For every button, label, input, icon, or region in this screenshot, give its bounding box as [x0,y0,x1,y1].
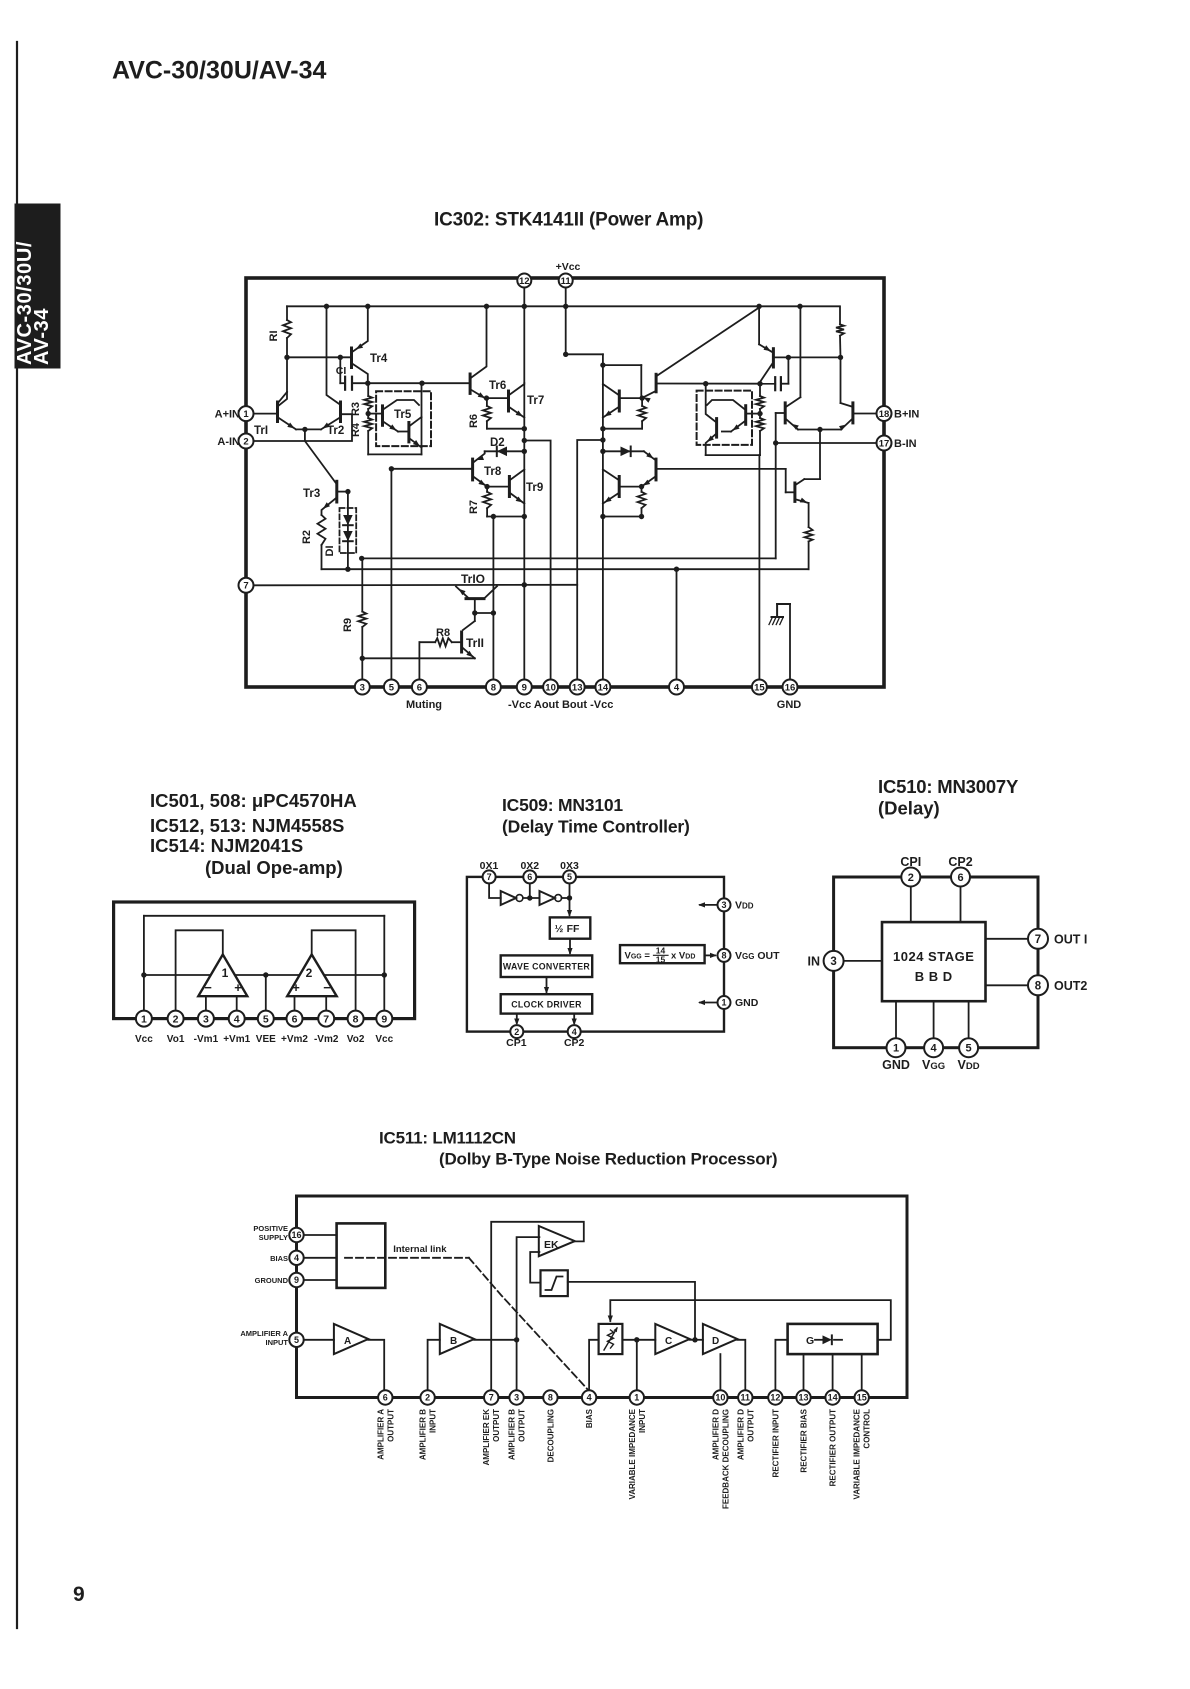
svg-text:6: 6 [417,682,422,693]
svg-text:BIAS: BIAS [585,1408,594,1428]
svg-text:VGG =: VGG = [625,951,651,962]
svg-text:CI: CI [336,365,347,377]
svg-text:INPUT: INPUT [429,1409,438,1433]
svg-text:IC510: MN3007Y: IC510: MN3007Y [878,776,1019,797]
svg-text:4: 4 [294,1253,299,1263]
svg-text:Tr5: Tr5 [394,409,412,421]
svg-text:VDD: VDD [735,900,754,912]
svg-text:1: 1 [634,1393,639,1403]
svg-text:-Vcc Aout Bout -Vcc: -Vcc Aout Bout -Vcc [508,699,613,711]
svg-text:VARIABLE IMPEDANCE: VARIABLE IMPEDANCE [853,1408,862,1499]
svg-text:8: 8 [1035,980,1042,992]
svg-text:AMPLIFIER D: AMPLIFIER D [736,1409,745,1460]
svg-text:IN: IN [808,955,821,969]
svg-text:7: 7 [489,1393,494,1403]
svg-text:5: 5 [263,1013,269,1025]
svg-text:1024 STAGE: 1024 STAGE [893,949,974,964]
svg-text:B: B [450,1336,457,1347]
svg-text:+: + [292,980,300,995]
svg-text:6: 6 [292,1013,298,1025]
svg-text:14: 14 [598,682,609,693]
svg-text:Vcc: Vcc [135,1034,153,1045]
svg-text:6: 6 [383,1393,388,1403]
svg-text:4: 4 [931,1043,938,1055]
svg-text:IC512, 513: NJM4558S: IC512, 513: NJM4558S [150,815,344,836]
svg-text:AMPLIFIER D: AMPLIFIER D [711,1409,720,1460]
svg-text:5: 5 [294,1335,299,1345]
svg-text:(Dolby B-Type Noise Reduction: (Dolby B-Type Noise Reduction Processor) [439,1150,777,1169]
svg-text:Tr6: Tr6 [489,380,506,392]
svg-text:16: 16 [291,1230,301,1240]
svg-text:Tr9: Tr9 [526,482,543,494]
svg-text:6: 6 [957,872,963,884]
svg-text:D2: D2 [490,437,505,449]
svg-text:TrI: TrI [254,425,268,437]
svg-text:5: 5 [567,872,572,882]
svg-text:VEE: VEE [256,1034,276,1045]
svg-text:4: 4 [587,1393,592,1403]
svg-text:VGG OUT: VGG OUT [735,950,780,962]
svg-text:−: − [204,980,212,995]
svg-text:3: 3 [721,900,726,910]
svg-text:½: ½ [555,923,564,935]
svg-text:2: 2 [514,1027,519,1037]
svg-text:2: 2 [306,966,313,980]
svg-text:AMPLIFIER B: AMPLIFIER B [419,1409,428,1460]
svg-text:2: 2 [425,1393,430,1403]
svg-text:OUT2: OUT2 [1054,979,1087,993]
svg-text:R6: R6 [468,414,480,428]
svg-text:Vo2: Vo2 [347,1034,365,1045]
svg-text:1: 1 [721,998,726,1008]
svg-text:10: 10 [715,1393,725,1403]
svg-text:VDD: VDD [958,1058,980,1072]
svg-text:OUTPUT: OUTPUT [746,1409,755,1442]
svg-text:+Vm1: +Vm1 [223,1034,250,1045]
svg-text:RECTIFIER BIAS: RECTIFIER BIAS [800,1408,809,1472]
svg-text:TrII: TrII [466,636,484,650]
svg-text:AMPLIFIER EK: AMPLIFIER EK [482,1409,491,1466]
svg-text:DI: DI [324,546,336,557]
svg-text:OUTPUT: OUTPUT [518,1409,527,1442]
svg-text:-Vm2: -Vm2 [314,1034,339,1045]
svg-text:INPUT: INPUT [638,1409,647,1433]
svg-text:7: 7 [487,872,492,882]
svg-text:x VDD: x VDD [671,951,695,962]
svg-text:OUTPUT: OUTPUT [492,1409,501,1442]
svg-text:B B D: B B D [915,969,953,984]
svg-text:R9: R9 [342,618,354,632]
svg-text:Internal link: Internal link [393,1244,447,1255]
svg-text:15: 15 [857,1393,867,1403]
svg-text:OUT I: OUT I [1054,933,1087,947]
svg-text:Tr3: Tr3 [303,488,320,500]
svg-text:Vo1: Vo1 [167,1034,185,1045]
svg-text:8: 8 [548,1393,553,1403]
svg-text:3: 3 [360,682,365,693]
svg-text:8: 8 [353,1013,359,1025]
svg-text:7: 7 [323,1013,329,1025]
svg-text:1: 1 [893,1043,899,1055]
svg-text:5: 5 [966,1043,972,1055]
svg-text:VARIABLE IMPEDANCE: VARIABLE IMPEDANCE [628,1408,637,1499]
svg-text:A+IN: A+IN [215,409,240,421]
svg-text:FF: FF [567,923,580,935]
svg-text:15: 15 [754,682,765,693]
svg-text:7: 7 [243,581,248,592]
svg-text:Muting: Muting [406,699,442,711]
svg-text:AMPLIFIER A: AMPLIFIER A [376,1409,385,1460]
svg-text:12: 12 [770,1393,780,1403]
svg-text:R7: R7 [468,500,480,514]
svg-text:1: 1 [222,966,229,980]
svg-text:G: G [806,1335,814,1347]
svg-text:3: 3 [514,1393,519,1403]
svg-text:(Delay Time Controller): (Delay Time Controller) [502,817,690,837]
svg-text:VGG: VGG [922,1058,945,1072]
svg-text:GROUND: GROUND [255,1276,289,1285]
svg-text:RI: RI [268,331,280,342]
svg-text:2: 2 [243,436,248,447]
svg-text:WAVE CONVERTER: WAVE CONVERTER [503,962,590,972]
svg-text:AVC-30/30U/AV-34: AVC-30/30U/AV-34 [112,57,327,85]
svg-text:(Delay): (Delay) [878,798,940,819]
svg-text:Tr2: Tr2 [327,425,344,437]
svg-text:6: 6 [527,872,532,882]
svg-text:Tr7: Tr7 [527,395,544,407]
svg-text:17: 17 [879,438,890,449]
svg-text:R2: R2 [301,530,313,544]
svg-text:R8: R8 [436,627,450,639]
svg-text:14: 14 [828,1393,838,1403]
svg-text:+: + [234,980,242,995]
svg-text:3: 3 [203,1013,209,1025]
svg-text:13: 13 [572,682,583,693]
svg-text:8: 8 [721,951,726,961]
svg-text:1: 1 [141,1013,147,1025]
svg-text:Tr8: Tr8 [484,466,502,478]
svg-text:DECOUPLING: DECOUPLING [546,1409,555,1462]
svg-text:1: 1 [243,409,249,420]
svg-text:IC514: NJM2041S: IC514: NJM2041S [150,835,303,856]
svg-text:16: 16 [785,682,796,693]
svg-text:A: A [344,1336,351,1347]
svg-text:RECTIFIER OUTPUT: RECTIFIER OUTPUT [829,1409,838,1486]
svg-text:EK: EK [544,1239,559,1251]
svg-text:SUPPLY: SUPPLY [259,1233,288,1242]
svg-text:-Vm1: -Vm1 [194,1034,219,1045]
svg-text:Vcc: Vcc [375,1034,393,1045]
svg-text:4: 4 [572,1027,577,1037]
svg-text:B-IN: B-IN [894,438,917,450]
svg-text:GND: GND [735,997,759,1009]
svg-text:2: 2 [908,872,914,884]
svg-text:GND: GND [882,1058,910,1072]
svg-text:11: 11 [561,276,572,287]
svg-text:9: 9 [381,1013,387,1025]
svg-text:(Dual Ope-amp): (Dual Ope-amp) [205,857,343,878]
svg-text:9: 9 [522,682,527,693]
svg-text:3: 3 [830,956,836,968]
svg-text:INPUT: INPUT [266,1338,289,1347]
svg-text:11: 11 [741,1393,751,1403]
svg-text:BIAS: BIAS [270,1254,288,1263]
svg-text:9: 9 [294,1275,299,1285]
svg-text:AV-34: AV-34 [31,308,53,365]
svg-text:AMPLIFIER B: AMPLIFIER B [508,1409,517,1460]
svg-text:+Vcc: +Vcc [556,261,581,273]
svg-text:TrIO: TrIO [461,572,485,586]
svg-text:−: − [323,980,331,995]
svg-text:+Vm2: +Vm2 [281,1034,308,1045]
svg-text:8: 8 [491,682,496,693]
svg-text:FEEDBACK DECOUPLING: FEEDBACK DECOUPLING [721,1409,730,1509]
svg-text:7: 7 [1035,934,1041,946]
svg-text:15: 15 [656,955,666,965]
svg-text:10: 10 [545,682,556,693]
svg-text:A-IN: A-IN [217,436,240,448]
svg-text:4: 4 [234,1013,240,1025]
svg-text:GND: GND [777,699,802,711]
svg-text:IC501, 508: μPC4570HA: IC501, 508: μPC4570HA [150,790,357,811]
svg-text:9: 9 [73,1583,85,1606]
svg-text:RECTIFIER INPUT: RECTIFIER INPUT [771,1409,780,1478]
svg-text:OUTPUT: OUTPUT [386,1409,395,1442]
svg-text:IC302: STK4141II (Power Amp): IC302: STK4141II (Power Amp) [434,210,703,231]
svg-text:D: D [712,1336,719,1347]
svg-text:B+IN: B+IN [894,409,919,421]
svg-text:POSITIVE: POSITIVE [253,1224,288,1233]
svg-text:CLOCK DRIVER: CLOCK DRIVER [511,1000,582,1010]
svg-text:AMPLIFIER A: AMPLIFIER A [240,1329,288,1338]
svg-text:C: C [665,1336,672,1347]
svg-text:5: 5 [389,682,395,693]
svg-text:IC511: LM1112CN: IC511: LM1112CN [379,1129,516,1148]
svg-text:13: 13 [798,1393,808,1403]
svg-text:Tr4: Tr4 [370,353,388,365]
svg-text:4: 4 [674,682,680,693]
svg-text:2: 2 [173,1013,179,1025]
svg-text:CONTROL: CONTROL [863,1409,872,1449]
svg-text:IC509: MN3101: IC509: MN3101 [502,795,623,815]
svg-text:18: 18 [879,409,890,420]
svg-text:12: 12 [519,276,530,287]
